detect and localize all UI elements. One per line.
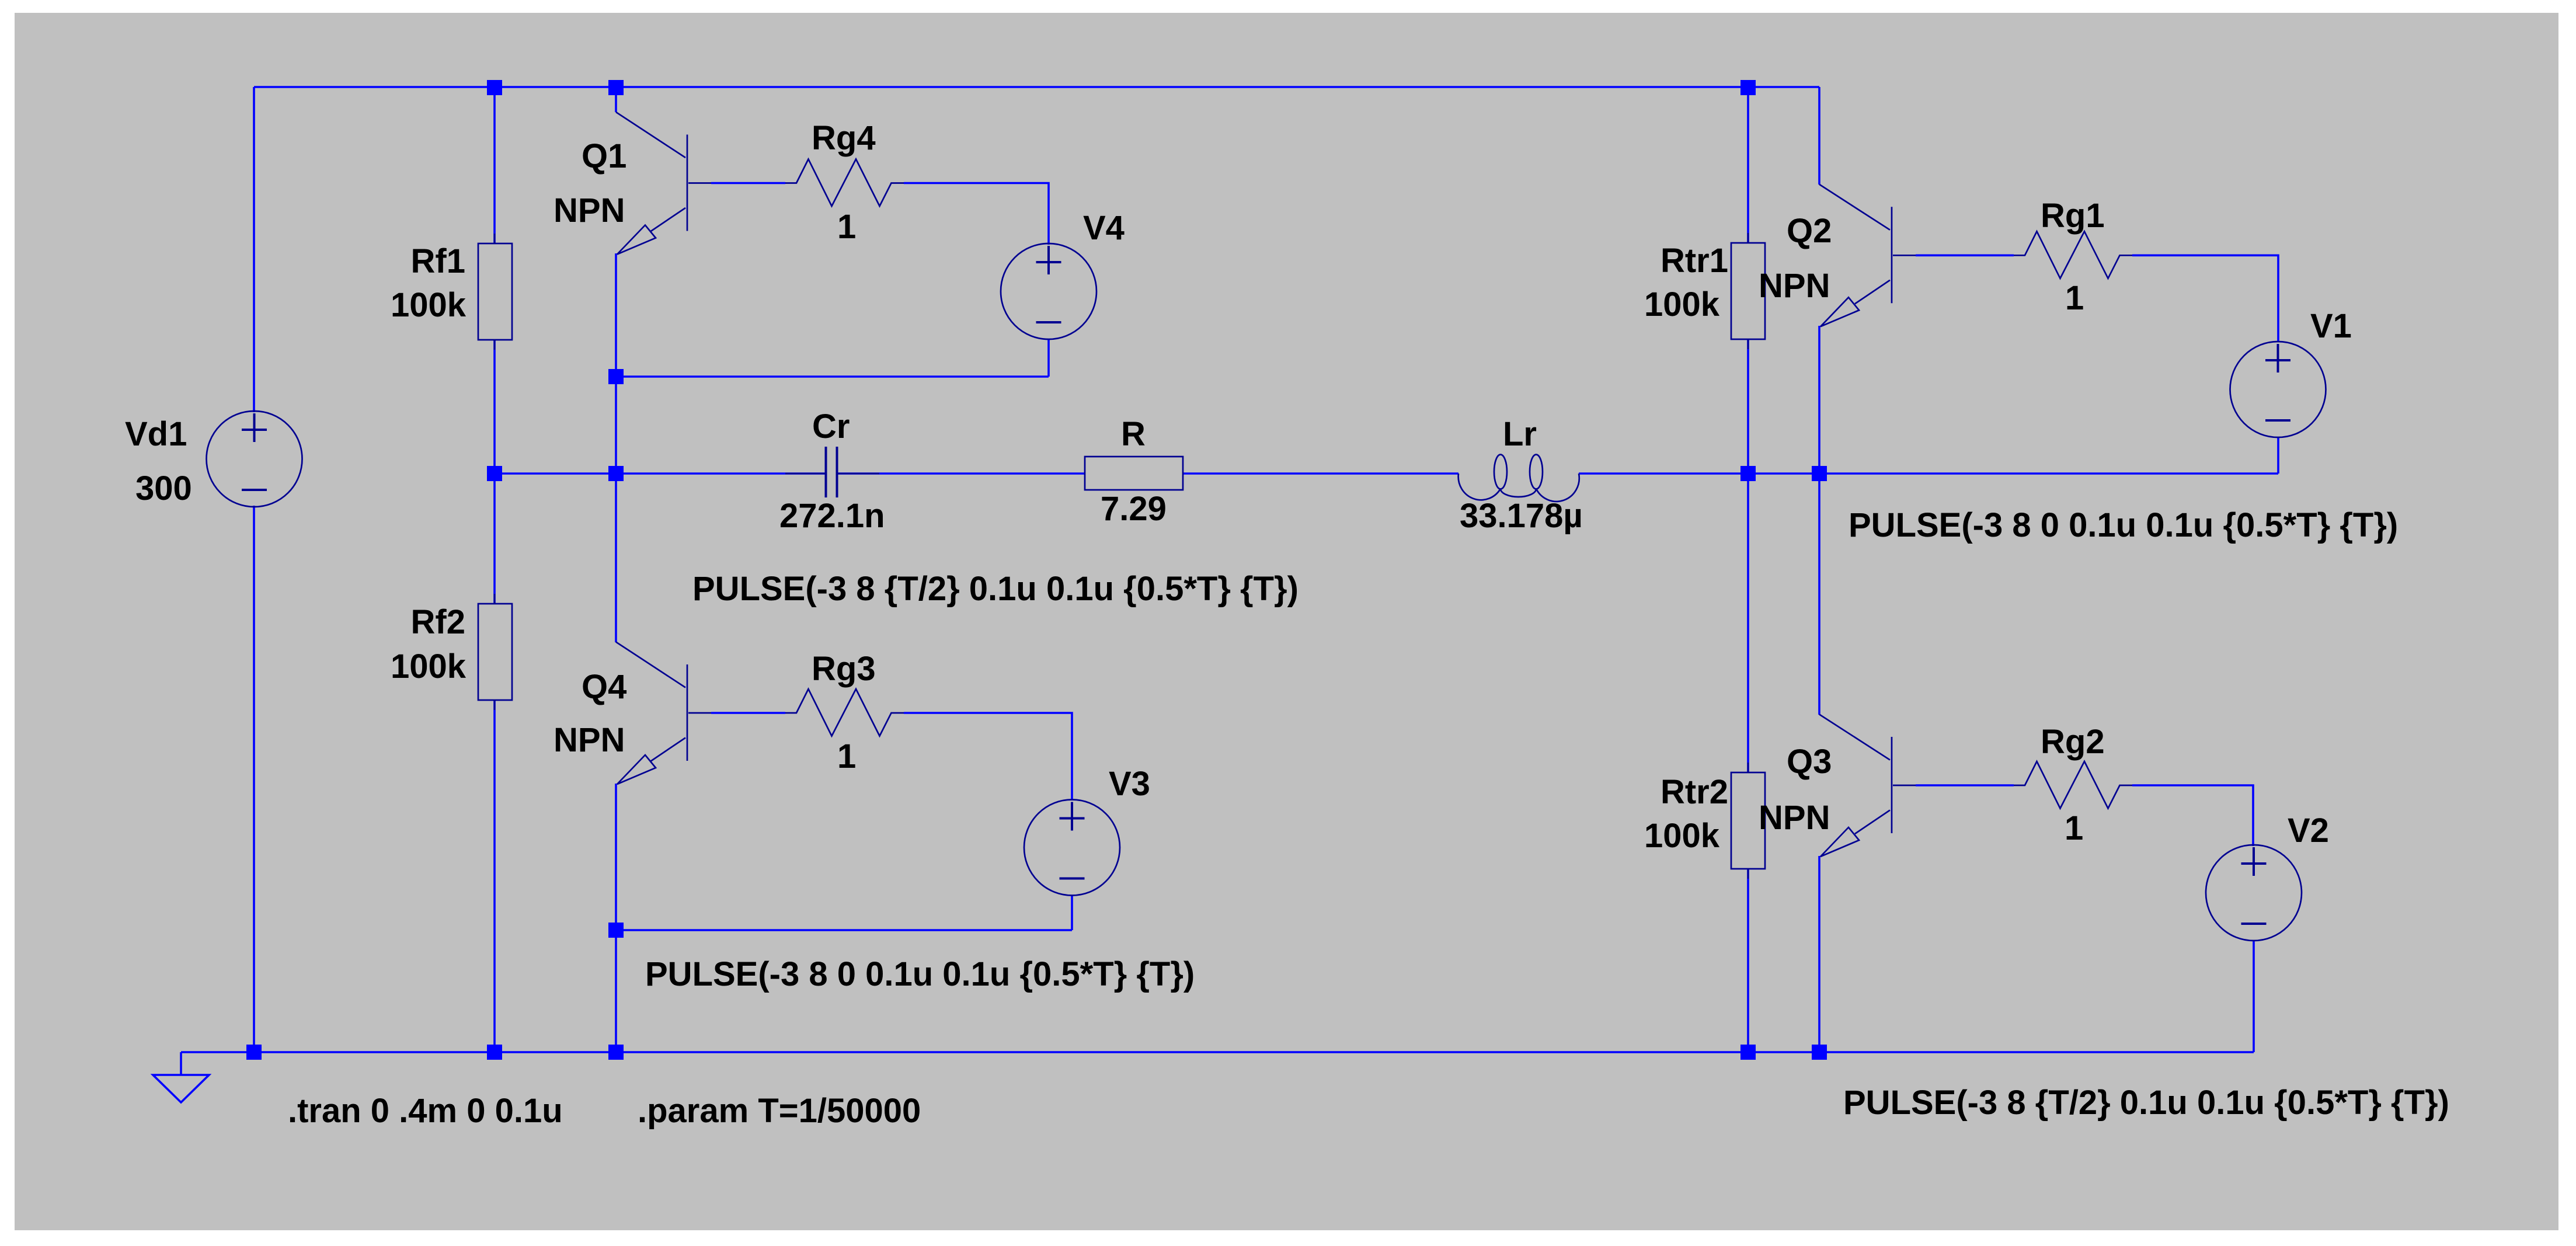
svg-text:R: R <box>1121 415 1146 453</box>
wire top rail <box>254 86 1819 88</box>
svg-text:NPN: NPN <box>554 721 625 759</box>
wire mid rail segment 4 <box>1579 472 2278 475</box>
wire Q2 emitter column <box>1818 326 1820 474</box>
svg-text:Lr: Lr <box>1503 415 1537 453</box>
svg-text:Rf1: Rf1 <box>411 242 465 280</box>
transistor Q2 <box>1819 185 1916 327</box>
wire Rg4 to V4 <box>904 183 1049 245</box>
voltage source Vd1 <box>207 411 302 507</box>
node junction mid Q2 col <box>1812 466 1827 481</box>
transistor Q1 <box>616 112 711 255</box>
voltage source V3 <box>1024 800 1120 896</box>
svg-text:Q2: Q2 <box>1787 212 1832 250</box>
wire Rf column upper <box>493 87 496 243</box>
svg-text:Rg3: Rg3 <box>812 650 876 688</box>
wire mid rail segment 3 <box>1183 472 1458 475</box>
svg-text:Vd1: Vd1 <box>125 415 187 453</box>
resistor R <box>1085 457 1183 490</box>
transistor Q3 <box>1819 715 1916 857</box>
wire Q2 base to Rg1 <box>1916 254 2014 256</box>
voltage source V2 <box>2206 845 2302 941</box>
wire left column upper (Vd1 plus lead) <box>253 87 255 412</box>
wire Rtr column lower <box>1747 474 1749 772</box>
node junction top Rf <box>487 80 502 95</box>
svg-text:1: 1 <box>2065 279 2084 317</box>
svg-text:Rg1: Rg1 <box>2041 197 2105 235</box>
wire V2 bottom <box>2253 941 2255 1052</box>
wire V1 bottom <box>2277 437 2279 474</box>
wire Q3 emitter column <box>1818 856 1820 1052</box>
wire Q1 collector stub <box>615 87 617 112</box>
svg-text:NPN: NPN <box>554 192 625 229</box>
node junction mid Q col <box>608 466 624 481</box>
resistor Rg3 <box>785 689 904 736</box>
wire ground stub <box>180 1052 182 1075</box>
resistor Rtr1 <box>1731 233 1765 349</box>
wire V4 bottom <box>1047 339 1050 377</box>
svg-text:.param T=1/50000: .param T=1/50000 <box>638 1092 921 1130</box>
svg-text:PULSE(-3 8 {T/2} 0.1u 0.1u {0.: PULSE(-3 8 {T/2} 0.1u 0.1u {0.5*T} {T}) <box>692 570 1299 608</box>
node junction V3 return <box>608 923 624 938</box>
wire V3 bottom <box>1071 895 1073 930</box>
wire Q4 base to Rg3 <box>711 712 785 714</box>
svg-text:300: 300 <box>135 469 192 507</box>
wire bottom rail <box>181 1051 2254 1053</box>
svg-text:Q4: Q4 <box>582 668 626 706</box>
wire Q4 collector stub <box>615 474 617 642</box>
wire Rtr column middle <box>1747 339 1749 474</box>
svg-text:V4: V4 <box>1083 209 1125 247</box>
wire Q1 base to Rg4 <box>711 182 785 185</box>
svg-text:V3: V3 <box>1109 765 1150 803</box>
svg-text:33.178µ: 33.178µ <box>1460 497 1583 535</box>
voltage source V4 <box>1001 243 1096 339</box>
wire Rf column middle <box>493 340 496 604</box>
svg-text:NPN: NPN <box>1759 799 1830 837</box>
svg-text:1: 1 <box>837 737 856 775</box>
resistor Rtr2 <box>1731 763 1765 879</box>
wire Rf column lower <box>493 701 496 1052</box>
svg-text:272.1n: 272.1n <box>779 497 885 535</box>
svg-text:Cr: Cr <box>812 408 850 446</box>
node junction bottom Q3 col <box>1812 1045 1827 1060</box>
node junction mid Rtr <box>1740 466 1756 481</box>
wire V4 return rail <box>616 375 1049 378</box>
svg-text:7.29: 7.29 <box>1101 490 1167 528</box>
svg-text:100k: 100k <box>391 648 467 685</box>
svg-text:Rtr1: Rtr1 <box>1661 242 1728 280</box>
wire Q3 base to Rg2 <box>1916 784 2014 786</box>
inductor Lr <box>1458 455 1579 502</box>
svg-text:Rg4: Rg4 <box>812 119 876 157</box>
resistor Rf2 <box>478 594 512 710</box>
svg-text:PULSE(-3 8 0 0.1u 0.1u {0.5*T}: PULSE(-3 8 0 0.1u 0.1u {0.5*T} {T}) <box>1849 506 2398 544</box>
svg-text:100k: 100k <box>391 286 467 324</box>
svg-text:100k: 100k <box>1644 286 1720 323</box>
node junction bottom Vd1 <box>246 1045 262 1060</box>
svg-text:100k: 100k <box>1644 817 1720 855</box>
wire Rtr column upper <box>1747 87 1749 243</box>
svg-text:PULSE(-3 8 0 0.1u 0.1u {0.5*T}: PULSE(-3 8 0 0.1u 0.1u {0.5*T} {T}) <box>645 955 1195 993</box>
node junction mid Rf <box>487 466 502 481</box>
svg-text:Rf2: Rf2 <box>411 603 465 641</box>
node junction bottom Rtr <box>1740 1045 1756 1060</box>
svg-text:.tran 0 .4m 0 0.1u: .tran 0 .4m 0 0.1u <box>288 1092 563 1130</box>
resistor Rg1 <box>2014 231 2132 279</box>
wire Q2 collector <box>1818 87 1820 185</box>
node junction top Q1 <box>608 80 624 95</box>
resistor Rg4 <box>785 159 904 207</box>
wire Rg2 to V2 <box>2132 785 2253 846</box>
resistor Rg2 <box>2014 761 2132 809</box>
svg-text:Q1: Q1 <box>582 137 626 175</box>
wire Rg1 to V1 <box>2132 255 2278 342</box>
voltage source V1 <box>2230 342 2326 437</box>
wire mid rail segment 2 <box>837 472 1085 475</box>
transistor Q4 <box>616 642 711 785</box>
wire Q1 emitter column <box>615 253 617 474</box>
svg-text:1: 1 <box>2065 809 2083 847</box>
node junction bottom Rf <box>487 1045 502 1060</box>
wire V3 return rail <box>616 929 1072 931</box>
wire Rtr column bottom <box>1747 869 1749 1052</box>
node junction V4 return <box>608 369 624 384</box>
capacitor Cr <box>785 447 879 497</box>
wire mid rail segment 1 <box>495 472 826 475</box>
svg-text:Q3: Q3 <box>1787 743 1832 781</box>
svg-text:V1: V1 <box>2310 307 2352 345</box>
svg-text:1: 1 <box>837 208 856 246</box>
wire left column lower (Vd1 minus lead) <box>253 506 255 1052</box>
resistor Rf1 <box>478 234 512 350</box>
ground <box>153 1075 209 1102</box>
wire Q3 collector <box>1818 474 1820 715</box>
svg-text:NPN: NPN <box>1759 267 1830 305</box>
node junction bottom Q col <box>608 1045 624 1060</box>
node junction top Rtr1 <box>1740 80 1756 95</box>
svg-text:Rtr2: Rtr2 <box>1661 773 1728 811</box>
wire Rg3 to V3 <box>904 713 1072 800</box>
svg-text:Rg2: Rg2 <box>2041 723 2105 761</box>
svg-text:PULSE(-3 8 {T/2} 0.1u 0.1u {0.: PULSE(-3 8 {T/2} 0.1u 0.1u {0.5*T} {T}) <box>1843 1084 2449 1122</box>
svg-text:V2: V2 <box>2288 812 2329 850</box>
wire Q4 emitter column <box>615 784 617 1052</box>
